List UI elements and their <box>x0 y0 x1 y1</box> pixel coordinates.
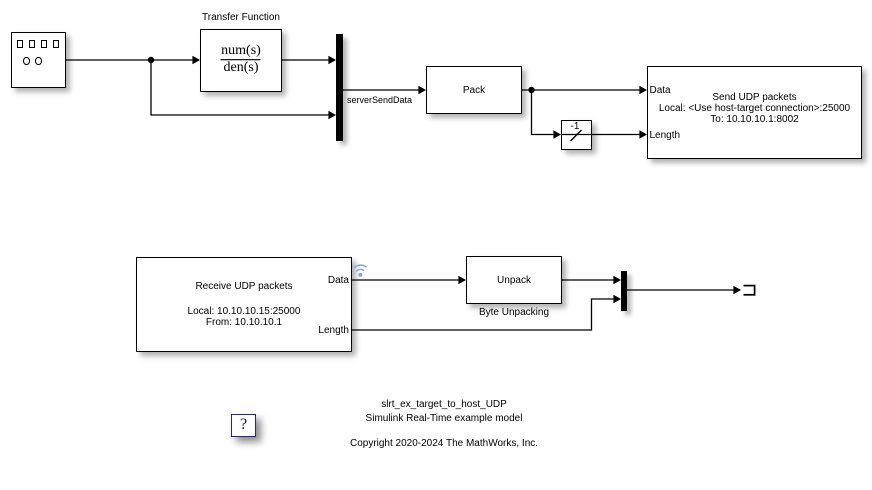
send block port label Length <box>650 130 681 141</box>
wire demux output to terminator <box>627 289 734 291</box>
arrowhead into mux lower input <box>328 111 336 119</box>
arrowhead into transfer function <box>192 56 200 64</box>
transfer function block <box>200 29 282 92</box>
source block U1 icon squares <box>17 40 23 48</box>
label Transfer Function <box>180 12 302 23</box>
annotation copyright <box>324 438 564 449</box>
rate transition diagonal <box>571 130 582 141</box>
open end connector symbol <box>744 285 756 296</box>
receive UDP packets block <box>136 257 352 352</box>
label Pack <box>426 85 522 96</box>
help block ? <box>231 414 256 437</box>
arrowhead into send UDP Length <box>639 130 647 138</box>
rate transition block -1 <box>561 120 592 150</box>
arrowhead into demux upper input <box>613 276 621 284</box>
arrowhead into rate transition <box>553 130 561 138</box>
label -1 <box>560 121 591 132</box>
wire transfer function to mux upper input <box>282 59 329 61</box>
transfer function fraction line <box>221 59 261 61</box>
logging badge on Data signal <box>355 265 366 271</box>
send block description <box>647 92 862 125</box>
arrowhead into mux upper input <box>328 56 336 64</box>
signal label serverSendData <box>347 95 412 105</box>
wire branch down to rate transition <box>532 90 555 135</box>
wire branch down to mux lower input <box>151 60 329 115</box>
transfer function numerator num(s) <box>200 44 282 58</box>
wire receive Length to demux lower input <box>352 299 614 330</box>
arrowhead into pack <box>418 86 426 94</box>
rate transition mid line <box>561 134 592 136</box>
mux Mux1 <box>336 34 343 141</box>
wire receive Data to unpack <box>352 279 459 281</box>
pack block <box>426 66 522 114</box>
wire source to transfer function <box>66 59 193 61</box>
wire pack to send UDP Data <box>522 89 640 91</box>
receive block description <box>136 306 352 328</box>
junction node after pack <box>528 87 534 93</box>
arrowhead at open end <box>733 286 741 294</box>
help block glyph <box>231 417 256 433</box>
receive block title <box>136 281 352 292</box>
unpack block <box>466 256 562 304</box>
wire unpack to demux upper input <box>562 279 614 281</box>
wire mux output serverSendData to pack <box>343 89 420 91</box>
junction node after source <box>148 57 154 63</box>
arrowhead into send UDP Data <box>639 86 647 94</box>
label Byte Unpacking <box>466 307 562 318</box>
source block U1 icon circles <box>23 57 30 66</box>
receive block port label Data <box>289 275 349 286</box>
receive block port label Length <box>289 325 349 336</box>
arrowhead into demux lower input <box>613 295 621 303</box>
wire rate transition to send UDP Length <box>592 134 640 136</box>
transfer function denominator den(s) <box>200 61 282 75</box>
label Unpack <box>466 275 562 286</box>
signal label serverSendData (placeholder anchor) <box>0 0 1 1</box>
send block port label Data <box>650 85 671 96</box>
arrowhead into unpack <box>458 276 466 284</box>
send UDP packets block <box>647 66 862 159</box>
annotation model title <box>344 398 544 425</box>
source block U1 (button panel) <box>11 32 66 88</box>
demux Mux2 <box>621 271 627 311</box>
